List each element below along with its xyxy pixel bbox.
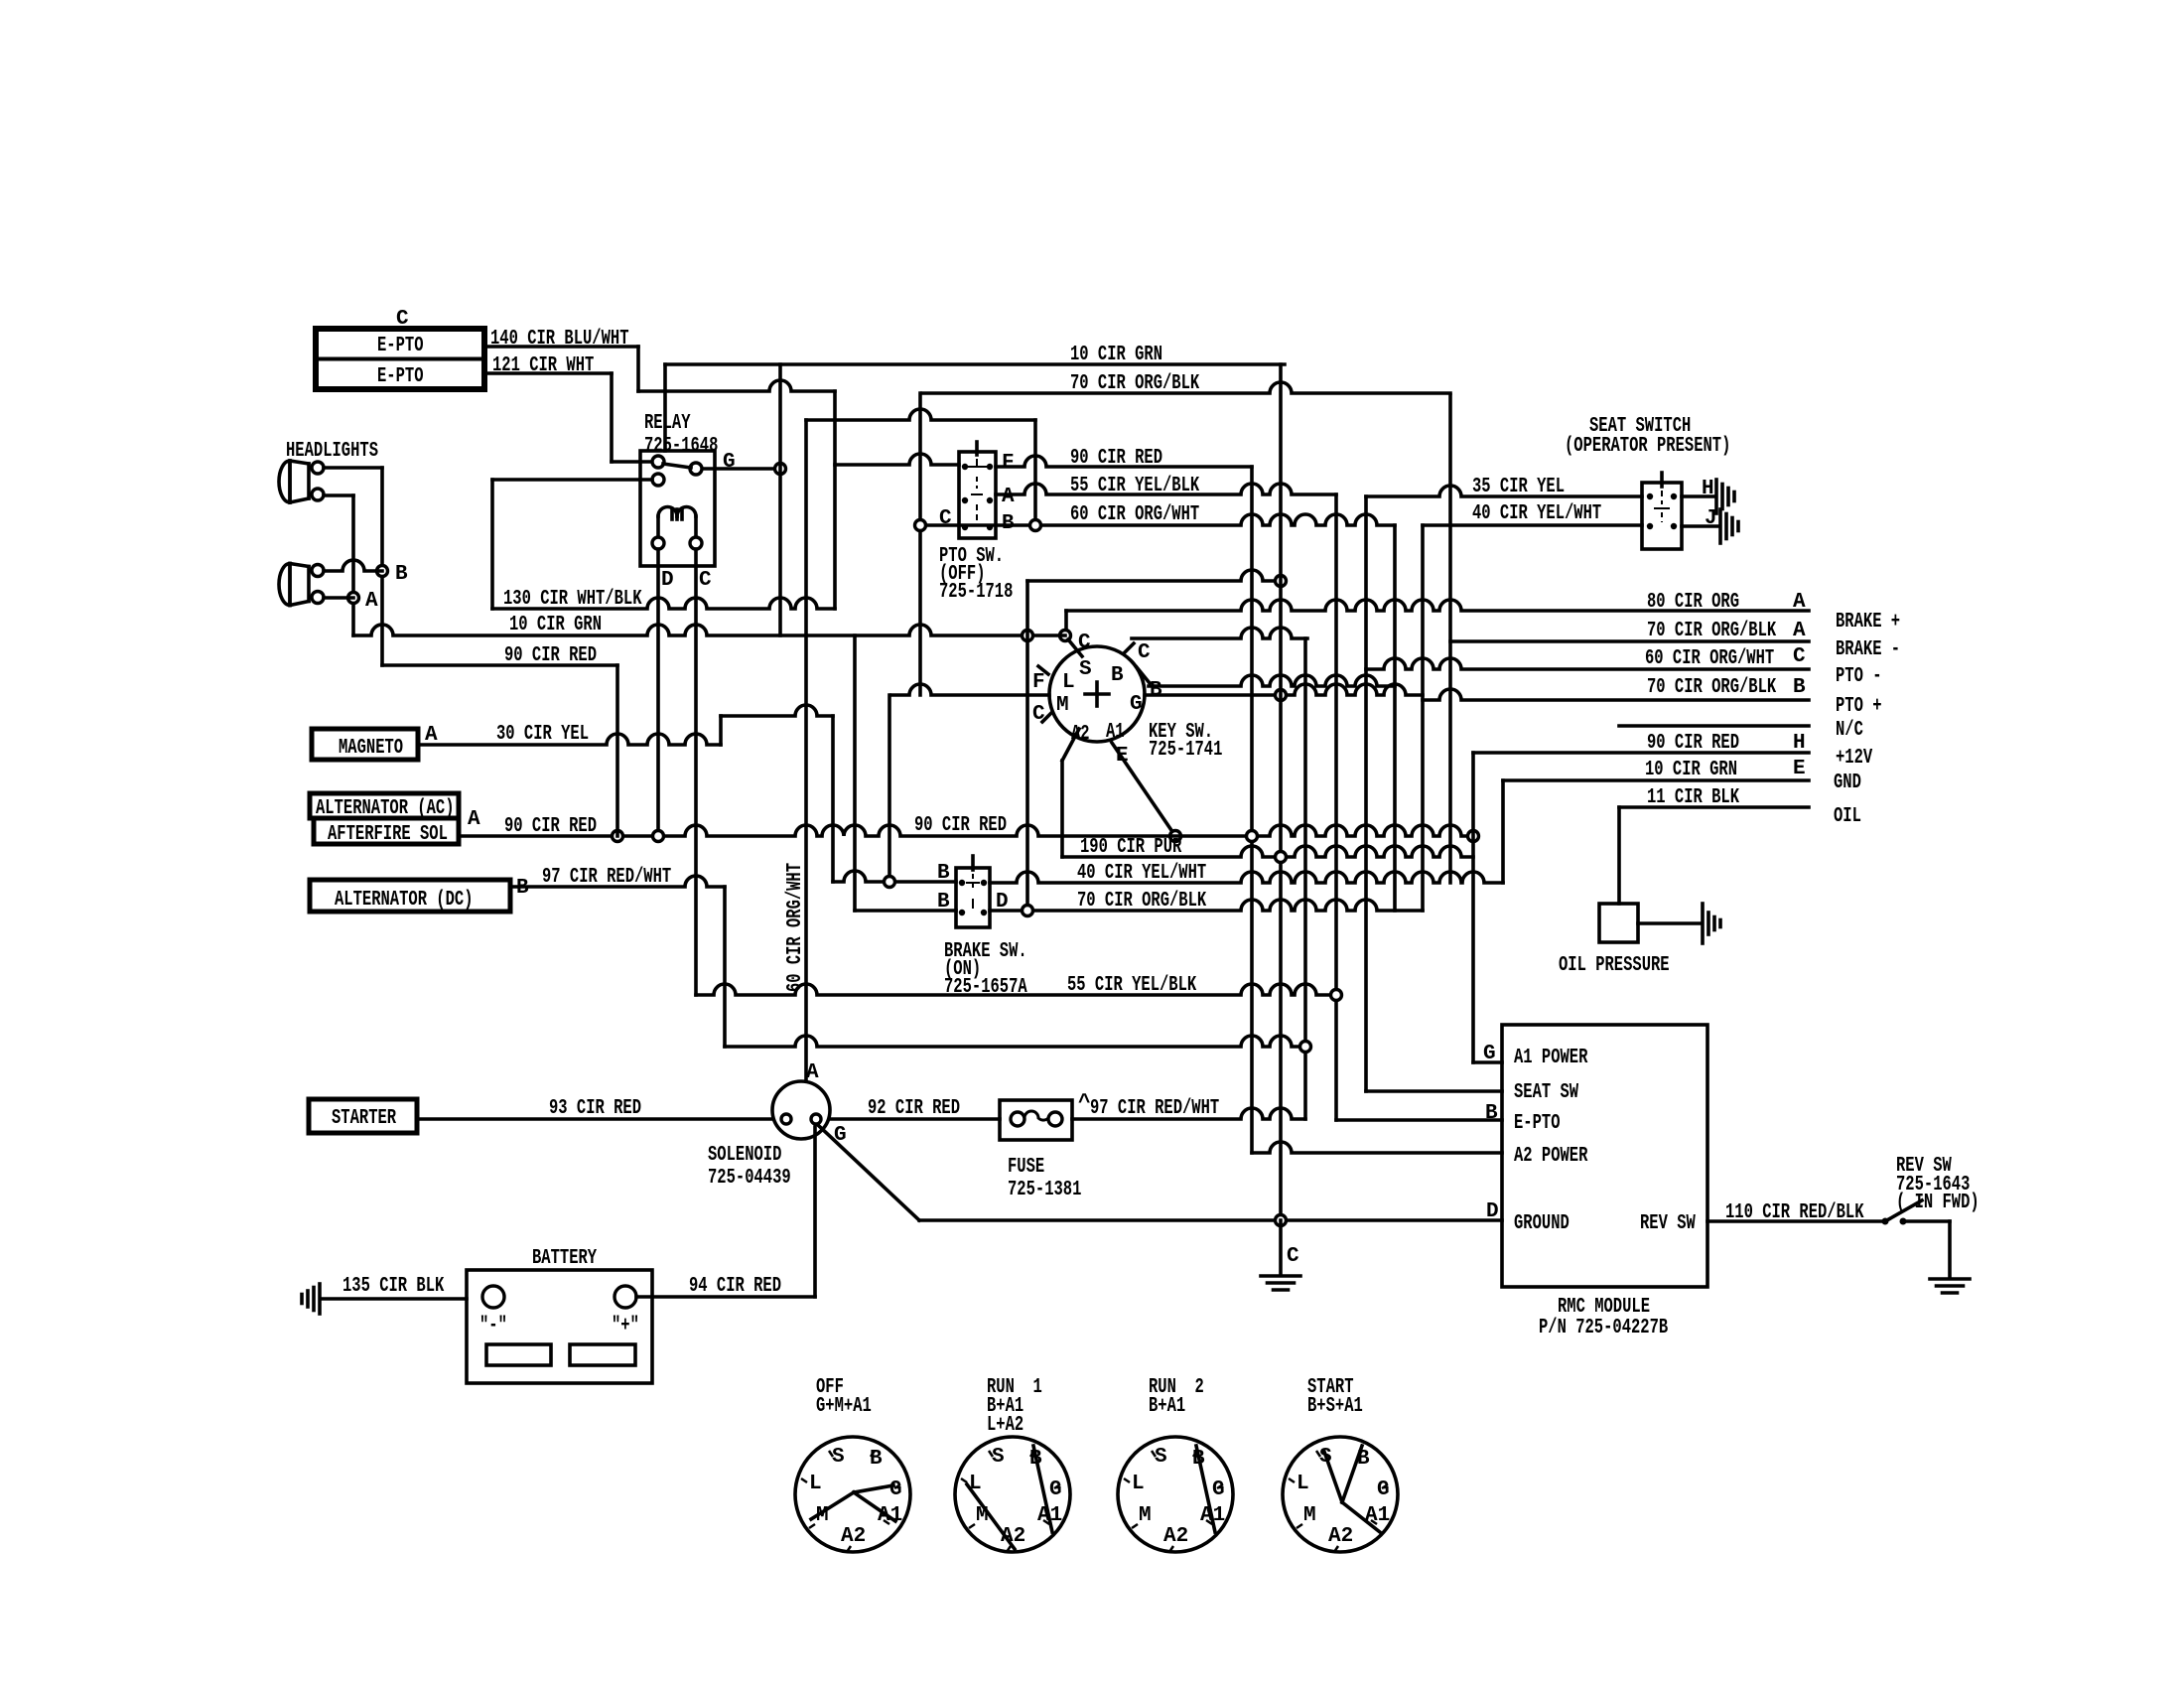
svg-text:C: C (1078, 632, 1091, 654)
rev switch arm (1885, 1200, 1922, 1221)
node PTO B junction (1030, 520, 1041, 531)
svg-text:M: M (1139, 1504, 1152, 1527)
key position diagram RUN 1 (955, 1437, 1070, 1552)
wire 135 CIR BLK (322, 1297, 467, 1301)
wire rev switch ground vertical (1948, 1221, 1952, 1277)
node 10-GRN junction 1035 (1023, 631, 1033, 641)
wire solenoid G diagonal (818, 1125, 919, 1220)
wire 97 CIR RED/WHT from alternator (510, 876, 725, 887)
svg-text:ALTERNATOR (DC): ALTERNATOR (DC) (335, 889, 474, 912)
wire 30-YEL upper jog (721, 705, 833, 716)
svg-text:S: S (1079, 658, 1092, 681)
svg-text:E: E (1116, 745, 1129, 768)
node 90-RED junction at 622 (613, 831, 623, 842)
svg-text:G: G (1049, 1478, 1062, 1501)
ALTERNATOR (DC) box (310, 880, 510, 912)
battery box (467, 1270, 652, 1383)
svg-text:97 CIR RED/WHT: 97 CIR RED/WHT (1090, 1097, 1219, 1120)
svg-text:G: G (1377, 1478, 1390, 1501)
svg-text:N/C: N/C (1836, 719, 1863, 742)
key position diagram START (1283, 1437, 1398, 1552)
svg-text:RMC MODULE: RMC MODULE (1558, 1296, 1650, 1319)
svg-text:B: B (1150, 679, 1162, 702)
svg-text:A2 POWER: A2 POWER (1514, 1145, 1588, 1168)
svg-text:BRAKE +: BRAKE + (1836, 611, 1900, 633)
svg-text:E-PTO: E-PTO (1514, 1112, 1561, 1135)
wire key E diagonal (1112, 743, 1175, 836)
svg-text:70 CIR ORG/BLK: 70 CIR ORG/BLK (1647, 620, 1776, 642)
wire rev switch to ground drop (1903, 1219, 1950, 1223)
svg-text:725-1381: 725-1381 (1008, 1179, 1081, 1201)
wire relay D vertical (656, 549, 660, 836)
svg-text:BRAKE -: BRAKE - (1836, 638, 1900, 661)
wire E-PTO 121 CIR WHT stub (484, 371, 612, 375)
wire 55 CIR YEL/BLK from PTO A (996, 484, 1336, 494)
wire 190 CIR PUR row (1062, 846, 1473, 857)
wire headlight1 top terminal to B line (324, 466, 382, 470)
wire 70 CIR ORG/BLK row B (1423, 689, 1809, 700)
fuse element (1011, 1111, 1062, 1126)
svg-text:70 CIR ORG/BLK: 70 CIR ORG/BLK (1647, 676, 1776, 699)
ground symbol at rev switch (1930, 1279, 1970, 1293)
wire 140 path vertical to 130 row (833, 391, 837, 609)
wire 60 CIR ORG/WHT from PTO C-B (920, 514, 1395, 525)
svg-text:725-1648: 725-1648 (644, 435, 718, 458)
wire 10 CIR GRN lower row (353, 625, 1065, 635)
svg-text:RELAY: RELAY (644, 412, 691, 435)
svg-text:L: L (1062, 671, 1075, 694)
wire relay C vertical (694, 549, 698, 995)
headlight lamp 1 (upper) (279, 461, 324, 502)
wire 70 CIR ORG/BLK row A (1450, 639, 1809, 643)
key switch circle (1049, 646, 1145, 742)
svg-text:L: L (809, 1473, 822, 1495)
ground symbol at battery negative (302, 1284, 320, 1314)
wire 90 CIR RED main row (459, 825, 1473, 836)
wire vertical 1035 (1025, 581, 1029, 911)
svg-text:725-1741: 725-1741 (1149, 739, 1222, 762)
wire key B diagonal (1137, 667, 1150, 683)
svg-text:L+A2: L+A2 (987, 1414, 1024, 1437)
svg-text:90 CIR RED: 90 CIR RED (504, 644, 597, 667)
wire vertical 1376 (1364, 496, 1368, 1091)
headlight lamp 2 (lower) (279, 564, 324, 606)
svg-text:PTO -: PTO - (1836, 665, 1882, 688)
wire 90 CIR RED row H (1473, 751, 1809, 755)
svg-text:S: S (832, 1446, 845, 1469)
svg-text:10 CIR GRN: 10 CIR GRN (509, 614, 602, 636)
svg-text:OIL PRESSURE: OIL PRESSURE (1559, 954, 1670, 977)
svg-text:L: L (1297, 1473, 1309, 1495)
wire stub from 10 CIR GRN down to relay area (663, 364, 667, 451)
seat switch box (1642, 483, 1682, 549)
svg-text:725-04439: 725-04439 (708, 1167, 791, 1190)
node relay G junction on vertical (775, 464, 786, 475)
wire solenoid G vertical to battery (813, 1127, 817, 1297)
wire headlight1 bottom terminal to A line (324, 493, 353, 497)
svg-text:725-1718: 725-1718 (939, 581, 1013, 604)
wire 121 path vertical (610, 373, 614, 462)
svg-text:G: G (1212, 1478, 1225, 1501)
battery cell rectangle 1 (486, 1344, 551, 1365)
svg-text:(OPERATOR PRESENT): (OPERATOR PRESENT) (1565, 435, 1730, 458)
node key E junction on 90-RED row (1170, 831, 1181, 842)
wire key A2 diagonal (1062, 729, 1079, 761)
wire 94 CIR RED (636, 1295, 815, 1299)
wire vertical from 10-GRN row through G junction (778, 364, 782, 635)
rev switch contact left (1882, 1218, 1889, 1225)
key position diagram OFF (795, 1437, 910, 1552)
key switch center cross (1085, 682, 1109, 706)
svg-text:"+": "+" (612, 1315, 639, 1337)
svg-text:MAGNETO: MAGNETO (339, 737, 403, 760)
svg-text:BATTERY: BATTERY (532, 1247, 597, 1270)
svg-text:B: B (395, 563, 408, 586)
wire 60 CIR ORG/WHT row C (1366, 658, 1809, 669)
solenoid circle (772, 1081, 830, 1139)
node key G junction (1276, 690, 1287, 701)
svg-text:A1 POWER: A1 POWER (1514, 1047, 1588, 1069)
relay coil terminal C (690, 537, 702, 549)
svg-text:A: A (1002, 486, 1015, 508)
svg-text:HEADLIGHTS: HEADLIGHTS (286, 440, 378, 463)
wire key C2 row (1132, 628, 1307, 638)
wire vertical 896 from M row (887, 695, 891, 882)
wire 40 CIR YEL/WHT from brake switch (990, 872, 1503, 883)
relay coil terminal D (652, 537, 664, 549)
wire 92 CIR RED (830, 1117, 1000, 1121)
wire key A2 vertical (1060, 761, 1064, 857)
wire 60 CIR ORG/WHT vertical to solenoid (804, 420, 808, 1081)
wire 55 CIR YEL/BLK lower row (696, 984, 1336, 995)
svg-text:FUSE: FUSE (1008, 1156, 1044, 1179)
svg-text:A: A (468, 808, 480, 831)
wire 80 CIR ORG long row (1066, 600, 1809, 611)
wire oil pressure to ground (1638, 921, 1701, 925)
node A junction (348, 593, 359, 604)
svg-text:A2: A2 (1163, 1525, 1188, 1548)
wire brake switch left-bottom stub (855, 909, 956, 913)
svg-text:A2: A2 (1328, 1525, 1353, 1548)
node 190-PUR junction 1290 (1276, 852, 1287, 863)
seat switch internals (1647, 473, 1677, 529)
wire key C riser to 80-ORG row (1064, 611, 1068, 630)
svg-text:A: A (1793, 620, 1806, 642)
svg-text:STARTER: STARTER (332, 1107, 396, 1130)
wire 130 CIR WHT/BLK row (492, 598, 835, 609)
wire vertical H / A1 power feed (1471, 753, 1475, 1062)
node PTO C junction (915, 520, 926, 531)
svg-text:F: F (1002, 452, 1015, 475)
wire 93 CIR RED (417, 1117, 772, 1121)
wire B vertical (380, 468, 384, 665)
STARTER box (309, 1099, 417, 1133)
MAGNETO box (312, 729, 418, 760)
wire headlight2 top terminal to node B (324, 560, 382, 571)
svg-text:L: L (1132, 1473, 1145, 1495)
svg-text:40 CIR YEL/WHT: 40 CIR YEL/WHT (1472, 502, 1601, 525)
wire key G row (1145, 684, 1423, 695)
svg-text:REV SW: REV SW (1640, 1212, 1696, 1235)
wire REV SW row from module (1707, 1219, 1882, 1223)
wire GROUND into module (919, 1218, 1502, 1222)
svg-text:C: C (1138, 641, 1151, 664)
wire vertical 861 (853, 635, 857, 911)
node brake D junction (1023, 906, 1033, 916)
battery terminal positive (614, 1286, 636, 1308)
svg-text:60 CIR ORG/WHT: 60 CIR ORG/WHT (784, 863, 807, 992)
wire relay contact2 left (492, 478, 652, 482)
svg-text:C: C (699, 569, 712, 592)
wire 90 CIR RED headlight branch (382, 663, 617, 667)
svg-text:S: S (1155, 1446, 1167, 1469)
wire vertical 1261 (90 CIR RED feed) (1250, 467, 1254, 1153)
wire A vertical (351, 495, 355, 635)
svg-text:60 CIR ORG/WHT: 60 CIR ORG/WHT (1645, 647, 1774, 670)
brake switch box (956, 868, 990, 927)
wire key F tick (1038, 666, 1048, 674)
wire vertical 927 from 70 row to PTO C (918, 393, 922, 695)
svg-text:A: A (806, 1061, 819, 1084)
svg-text:( IN FWD): ( IN FWD) (1896, 1192, 1979, 1214)
relay contact 2 (652, 474, 664, 486)
wire A2 POWER into module (1252, 1142, 1502, 1153)
wire 70 CIR ORG/BLK from brake switch (990, 900, 1423, 911)
svg-text:A2: A2 (841, 1525, 866, 1548)
wire A1 POWER into module (1473, 1060, 1502, 1064)
ALTERNATOR (AC) box (310, 793, 459, 818)
wire vertical 1346 (55 YEL/BLK feed) (1334, 494, 1338, 1120)
wire 97 path vertical 730 (723, 887, 727, 1047)
wire 70 CIR ORG/BLK top row (922, 382, 1450, 393)
svg-text:F: F (1032, 671, 1045, 694)
PTO switch box (959, 452, 996, 538)
wire vertical oil pressure (1617, 807, 1621, 904)
wire brake switch left-top stub (833, 871, 956, 882)
wire 30-YEL drop to brake row (831, 716, 835, 882)
wire key C diagonal (1068, 639, 1082, 656)
node 90-RED junction at 1261 (1247, 831, 1258, 842)
svg-text:E-PTO: E-PTO (377, 365, 424, 388)
node key C junction on 10-GRN row (1060, 631, 1071, 641)
svg-text:C: C (1793, 645, 1806, 668)
PTO switch internals (962, 442, 993, 530)
solenoid terminal left (781, 1114, 791, 1124)
wire 130 CIR WHT/BLK left vertical (490, 480, 494, 609)
node junction 1315-1054 (1300, 1042, 1311, 1053)
wire relay G to junction (703, 467, 780, 471)
relay contact 1 (652, 456, 664, 468)
wire ground C stub (1279, 1220, 1283, 1274)
svg-text:^: ^ (1078, 1092, 1091, 1115)
wire seat switch J stub (1682, 524, 1718, 528)
wire vertical E-GND (1501, 780, 1505, 883)
wire 121 into relay contact (612, 460, 652, 464)
svg-text:G: G (889, 1478, 902, 1501)
key position diagram RUN 2 (1118, 1437, 1233, 1552)
oil pressure sender box (1599, 904, 1638, 942)
svg-text:SOLENOID: SOLENOID (708, 1144, 781, 1167)
wire 60 ORG/WHT upper jog row (806, 409, 1035, 420)
AFTERFIRE SOL box (314, 818, 459, 844)
wire 97 CIR RED/WHT from fuse (1072, 1108, 1305, 1119)
svg-text:E-PTO: E-PTO (377, 335, 424, 357)
svg-text:10 CIR GRN: 10 CIR GRN (1645, 759, 1737, 781)
svg-text:93 CIR RED: 93 CIR RED (549, 1097, 641, 1120)
svg-text:B+A1: B+A1 (1149, 1395, 1185, 1418)
svg-text:B: B (870, 1448, 883, 1471)
ground symbol at seat switch H (1716, 480, 1734, 513)
svg-text:C: C (1287, 1245, 1299, 1268)
svg-text:GROUND: GROUND (1514, 1212, 1570, 1235)
wire row 585 to junction (1027, 570, 1281, 581)
svg-text:"-": "-" (479, 1315, 507, 1337)
wire seat switch H stub (1682, 494, 1714, 498)
svg-text:D: D (661, 569, 674, 592)
svg-text:60 CIR ORG/WHT: 60 CIR ORG/WHT (1070, 503, 1199, 526)
node 55-YB junction 1346 (1331, 990, 1342, 1001)
relay common contact (690, 463, 702, 475)
wire 30 CIR YEL (418, 734, 721, 745)
relay switch arm (663, 464, 691, 468)
svg-text:M: M (1303, 1504, 1316, 1527)
svg-text:92 CIR RED: 92 CIR RED (868, 1097, 960, 1120)
svg-text:135 CIR BLK: 135 CIR BLK (342, 1275, 445, 1298)
wire vertical 1405 (1393, 525, 1397, 911)
wire 11 CIR BLK row (1619, 805, 1809, 809)
node ground C junction (1276, 1215, 1287, 1226)
node junction 1290-585 (1276, 576, 1287, 587)
relay box (640, 451, 715, 566)
svg-text:A1: A1 (1106, 721, 1125, 744)
battery terminal negative (482, 1286, 504, 1308)
wire 90-RED headlight vertical (615, 665, 619, 836)
wire N/C row (1619, 724, 1809, 728)
solenoid terminal right (811, 1114, 821, 1124)
wire 140 path vertical (636, 347, 640, 391)
battery cell rectangle 2 (570, 1344, 635, 1365)
svg-text:E: E (1793, 758, 1806, 780)
fuse box (1000, 1100, 1072, 1140)
wire 40 CIR YEL/WHT to seat switch (1423, 523, 1642, 527)
svg-text:G: G (1130, 693, 1143, 716)
wire vertical down to PTO B junction (1033, 420, 1037, 525)
ground symbol C (chassis) (1261, 1276, 1300, 1290)
svg-text:M: M (1056, 694, 1069, 717)
svg-text:90 CIR RED: 90 CIR RED (914, 814, 1007, 837)
svg-text:SEAT SW: SEAT SW (1514, 1081, 1578, 1104)
svg-text:P/N 725-04227B: P/N 725-04227B (1539, 1317, 1668, 1339)
svg-text:30 CIR YEL: 30 CIR YEL (496, 723, 589, 746)
wire 10 CIR GRN top row (665, 362, 1285, 366)
ground symbol at seat switch J (1720, 509, 1738, 543)
relay coil (658, 507, 696, 538)
wire key C3 tick (1042, 712, 1052, 722)
svg-text:+12V: +12V (1836, 747, 1872, 770)
E-PTO connector block outline (316, 329, 484, 389)
node 90-RED junction at 1484 (1468, 831, 1479, 842)
svg-text:G+M+A1: G+M+A1 (816, 1395, 872, 1418)
svg-text:A: A (365, 590, 378, 613)
svg-text:B: B (1793, 676, 1806, 699)
svg-text:B+S+A1: B+S+A1 (1307, 1395, 1363, 1418)
RMC module box (1502, 1025, 1707, 1287)
wire vertical 1433 (1421, 525, 1425, 911)
wire row to 1315 junction (725, 1036, 1305, 1047)
rev switch contact right (1900, 1218, 1907, 1225)
wire vertical 1315 (1303, 638, 1307, 1119)
wire E-PTO 140 CIR BLU/WHT stub (484, 345, 638, 349)
svg-text:A: A (1793, 591, 1806, 614)
wire key C2 diagonal (1125, 643, 1134, 652)
brake switch internals (959, 856, 987, 915)
ground symbol at oil pressure (1703, 904, 1720, 943)
svg-text:AFTERFIRE SOL: AFTERFIRE SOL (328, 823, 448, 846)
wire 30-YEL jog up (719, 716, 723, 745)
wire vertical 1290 (ground C line) (1279, 364, 1283, 1221)
wire SEAT SW into module (1366, 1089, 1502, 1093)
E-PTO block divider (316, 357, 484, 361)
wire 90 CIR RED from PTO F (996, 456, 1252, 467)
svg-text:94 CIR RED: 94 CIR RED (689, 1275, 781, 1298)
wire PTO F left stub (835, 454, 959, 465)
wire 10 CIR GRN row E (1503, 778, 1809, 782)
svg-text:GND: GND (1834, 772, 1861, 794)
wire key B row (1149, 675, 1395, 686)
svg-text:S: S (992, 1446, 1005, 1469)
svg-text:OIL: OIL (1834, 805, 1861, 828)
wire vertical 1461 (1448, 395, 1452, 883)
wire 35 CIR YEL to seat switch (1366, 486, 1642, 496)
svg-text:B: B (1111, 664, 1124, 687)
node B junction (377, 566, 388, 577)
wire key M row (891, 684, 1049, 695)
svg-text:PTO +: PTO + (1836, 695, 1882, 718)
wire 140 path horizontal (638, 380, 835, 391)
wire E-PTO into module (1336, 1118, 1502, 1122)
node 90-RED junction at 663 (653, 831, 664, 842)
svg-text:80 CIR ORG: 80 CIR ORG (1647, 591, 1739, 614)
wire headlight2 bottom terminal to node A (324, 596, 353, 600)
node brake top-left junction (885, 877, 895, 888)
